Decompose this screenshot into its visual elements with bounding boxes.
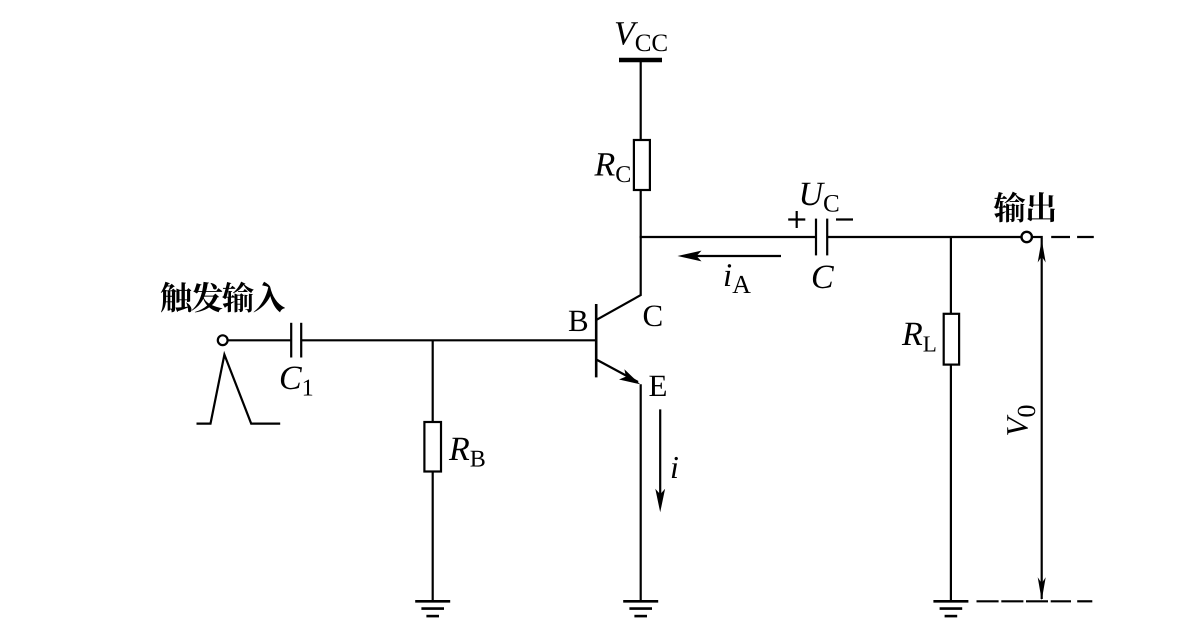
transistor Q1 emitter lead with arrow: [597, 360, 640, 384]
wire RC bottom to collector: [640, 190, 642, 296]
trigger pulse waveform: [197, 355, 281, 424]
wire input terminal to C1: [228, 339, 292, 341]
label iA: [725, 264, 751, 293]
label RB: [449, 438, 485, 467]
wire output circle stub: [1032, 236, 1043, 238]
dimension arrowhead bottom: [1038, 577, 1046, 600]
label UC: [802, 183, 839, 212]
wire VCC bar to RC top: [640, 62, 642, 140]
label RC: [594, 153, 630, 182]
resistor RC: [634, 140, 650, 190]
dashed line top right: [1051, 236, 1094, 238]
label E: [649, 376, 665, 396]
ground (RL): [933, 601, 968, 616]
label output (Chinese): [994, 192, 1055, 223]
ground (emitter): [623, 601, 658, 616]
wire RL node down: [950, 237, 952, 314]
resistor RB: [424, 422, 441, 472]
wire base from input to transistor: [301, 339, 596, 341]
output terminal circle: [1021, 232, 1031, 242]
dimension line V0: [1041, 238, 1043, 599]
resistor RL: [944, 314, 959, 365]
input terminal circle: [218, 335, 228, 345]
wire emitter to ground: [640, 384, 642, 600]
wire base node to RB: [432, 340, 434, 422]
ground (RB): [415, 601, 450, 616]
polarity minus sign: [836, 218, 853, 220]
label i: [672, 457, 678, 478]
current arrow i: [655, 409, 665, 512]
dashed line bottom right: [977, 600, 1093, 602]
label C (collector): [644, 305, 662, 326]
capacitor C1: [291, 323, 301, 358]
wire collector node to capacitor C left plate: [640, 236, 816, 238]
wire RB to ground: [432, 472, 434, 601]
transistor Q1 collector lead: [597, 295, 641, 320]
power rail VCC bar: [619, 58, 662, 63]
wire RL to ground: [950, 365, 952, 600]
transistor Q1 base bar: [595, 304, 598, 377]
dimension arrowhead top: [1038, 240, 1046, 263]
label RL: [902, 323, 936, 352]
polarity plus sign: [788, 211, 805, 228]
label VCC: [616, 22, 667, 51]
label V0: [1007, 406, 1035, 435]
label C1: [281, 366, 312, 395]
label B: [569, 311, 587, 331]
capacitor C: [816, 219, 827, 256]
label trigger input (Chinese): [161, 282, 285, 313]
current arrow iA: [678, 251, 782, 262]
wire capacitor C right plate to output: [827, 236, 1021, 238]
label C (capacitor): [813, 265, 834, 288]
